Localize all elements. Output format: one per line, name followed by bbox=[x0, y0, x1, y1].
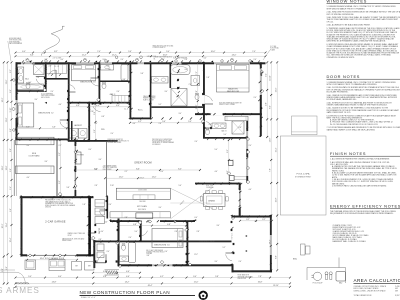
svg-text:49'-4": 49'-4" bbox=[148, 285, 153, 287]
window top wall WIC bbox=[138, 62, 145, 65]
interior dim vertical kitchen bbox=[228, 140, 230, 183]
svg-text:3'-8": 3'-8" bbox=[122, 79, 126, 81]
hall door arc bbox=[100, 211, 106, 217]
dimension chain bottom inner bbox=[16, 277, 291, 279]
svg-text:9'-0": 9'-0" bbox=[2, 268, 4, 272]
BBQ island bbox=[336, 272, 346, 282]
svg-text:BEDROOM #3: BEDROOM #3 bbox=[80, 82, 96, 84]
svg-text:13'-6": 13'-6" bbox=[270, 137, 272, 142]
svg-text:3'-0": 3'-0" bbox=[203, 58, 207, 60]
svg-text:2'-6": 2'-6" bbox=[48, 66, 52, 68]
svg-text:3'-6": 3'-6" bbox=[94, 129, 96, 133]
svg-text:POOL & SPA: POOL & SPA bbox=[297, 173, 310, 176]
svg-text:COURTYARD: COURTYARD bbox=[28, 155, 40, 158]
svg-text:OF 0.25.: OF 0.25. bbox=[327, 21, 334, 23]
master shower bbox=[171, 89, 187, 107]
svg-text:5'-0": 5'-0" bbox=[106, 66, 110, 68]
dimension chain bottom outer bbox=[16, 282, 291, 284]
svg-text:4'-0": 4'-0" bbox=[116, 105, 120, 107]
bath2 tub bbox=[18, 84, 44, 90]
svg-text:6'-8": 6'-8" bbox=[101, 116, 105, 118]
laundry walls bbox=[88, 102, 90, 140]
bath3 shower bbox=[232, 121, 244, 134]
hall dim row bbox=[68, 106, 129, 108]
pool rectangle bbox=[280, 136, 326, 215]
svg-text:8'-0": 8'-0" bbox=[88, 149, 92, 151]
svg-text:NEW CONSTRUCTION FLOOR PLAN: NEW CONSTRUCTION FLOOR PLAN bbox=[80, 290, 170, 295]
hall bath tub bbox=[121, 65, 128, 81]
entry door bbox=[96, 262, 107, 264]
bedroom2/3 divider wall bbox=[68, 62, 70, 103]
vault direction lines bbox=[170, 188, 213, 209]
svg-text:WITH DOOR MANUF. PRIOR TO FRAM: WITH DOOR MANUF. PRIOR TO FRAMING AND OR… bbox=[327, 83, 378, 86]
svg-text:AREA CALCULATIONS: AREA CALCULATIONS bbox=[354, 278, 400, 283]
svg-text:WITH HOSE CONN: WITH HOSE CONN bbox=[9, 40, 21, 42]
svg-text:36 1/2 TEMPERED: 36 1/2 TEMPERED bbox=[41, 94, 53, 96]
svg-text:1/2 IN. G.W.B. RATED FOR USE I: 1/2 IN. G.W.B. RATED FOR USE IN DAMP APP… bbox=[332, 174, 397, 177]
svg-text:COFFERED: COFFERED bbox=[206, 187, 214, 189]
office top wall bbox=[232, 216, 272, 218]
hall dim chain mid bbox=[130, 122, 203, 124]
svg-text:CL. #3: CL. #3 bbox=[54, 66, 59, 68]
svg-text:POOL EQUIP: POOL EQUIP bbox=[313, 283, 323, 285]
svg-text:2'-0": 2'-0" bbox=[106, 251, 110, 253]
door arc bedroom2 bbox=[60, 121, 68, 128]
garage top wall bbox=[21, 196, 94, 198]
bath2 lower vanity bbox=[120, 256, 129, 262]
svg-text:PREVENTER: PREVENTER bbox=[238, 278, 247, 280]
svg-text:SCALE: 1/4" = 1'-0": SCALE: 1/4" = 1'-0" bbox=[81, 296, 96, 299]
bath2 lower tub bbox=[129, 243, 136, 263]
svg-text:2'-2": 2'-2" bbox=[124, 171, 128, 173]
svg-text:TOTAL UNDER ROOF: TOTAL UNDER ROOF bbox=[354, 294, 373, 297]
svg-text:10'-6": 10'-6" bbox=[211, 51, 216, 53]
svg-text:SELECTION BY OWNER: SELECTION BY OWNER bbox=[219, 104, 235, 106]
courtyard fence left bbox=[13, 140, 15, 196]
great room interior dim row bbox=[75, 169, 200, 171]
svg-text:OBSCURE SHOWER: OBSCURE SHOWER bbox=[41, 95, 55, 97]
bath2 shower bbox=[34, 65, 45, 75]
courtyard wall stub bbox=[56, 139, 58, 197]
bedroom2 bed bbox=[18, 103, 34, 127]
great room west windows bbox=[75, 140, 77, 196]
svg-text:6'-0": 6'-0" bbox=[194, 217, 198, 219]
svg-text:3'-0" SEE: 3'-0" SEE bbox=[270, 46, 276, 48]
svg-text:2'-6": 2'-6" bbox=[194, 141, 198, 143]
svg-text:11'-2": 11'-2" bbox=[194, 254, 198, 256]
closet door arc bbox=[49, 70, 57, 75]
svg-text:5'-6": 5'-6" bbox=[52, 127, 56, 129]
svg-text:GAIN COEFFICIENT OF 0.25.: GAIN COEFFICIENT OF 0.25. bbox=[327, 111, 352, 114]
arrowhead specks at junctions bbox=[45, 102, 47, 104]
svg-text:6'-2": 6'-2" bbox=[26, 127, 30, 129]
svg-text:BEDROOM #4: BEDROOM #4 bbox=[154, 245, 170, 247]
svg-text:MASTER: MASTER bbox=[228, 87, 238, 90]
svg-text:2'-8": 2'-8" bbox=[196, 231, 200, 233]
hall bath toilet bbox=[102, 83, 106, 89]
dimension chain top inner bbox=[16, 52, 266, 54]
svg-text:2'-0": 2'-0" bbox=[253, 97, 257, 99]
svg-text:3'-0": 3'-0" bbox=[158, 207, 162, 209]
bath3 walls bbox=[203, 137, 246, 139]
master vanity left bbox=[152, 77, 169, 84]
svg-text:12'-8": 12'-8" bbox=[6, 117, 8, 122]
patio dim row bbox=[240, 220, 272, 222]
bath2 toilet bbox=[26, 83, 30, 89]
svg-text:HOSE BIBB WITH: HOSE BIBB WITH bbox=[238, 275, 249, 277]
svg-text:7'-8": 7'-8" bbox=[258, 276, 262, 278]
svg-text:24'-0": 24'-0" bbox=[232, 55, 237, 57]
svg-text:6'-4": 6'-4" bbox=[58, 276, 62, 278]
svg-text:KITCHEN: KITCHEN bbox=[137, 206, 147, 208]
dimension chain top outer bbox=[16, 55, 266, 57]
revision cloud curve bbox=[41, 26, 62, 55]
svg-text:2'-2": 2'-2" bbox=[58, 145, 62, 147]
entry hall east wall bbox=[118, 219, 120, 267]
master bath tub bbox=[171, 65, 191, 75]
svg-text:4'-0": 4'-0" bbox=[184, 69, 188, 71]
BBQ counter bbox=[301, 244, 306, 255]
svg-text:2'-6": 2'-6" bbox=[121, 59, 124, 61]
svg-text:3'-2": 3'-2" bbox=[262, 219, 266, 221]
svg-text:4'-6": 4'-6" bbox=[248, 189, 252, 191]
svg-text:9'-2": 9'-2" bbox=[146, 222, 150, 224]
svg-text:1. ALL INTERIOR FINISHES PER O: 1. ALL INTERIOR FINISHES PER OWNER/CONTR… bbox=[330, 158, 390, 161]
svg-text:1'-8": 1'-8" bbox=[206, 77, 210, 79]
svg-text:3'-4": 3'-4" bbox=[193, 276, 197, 278]
svg-text:IN. OF CEILING AND ONE WITHIN: IN. OF CEILING AND ONE WITHIN 12 IN. OF … bbox=[330, 123, 378, 126]
svg-text:D. EXTERIOR PATIO CEILING SHAL: D. EXTERIOR PATIO CEILING SHALL BE GAP E… bbox=[332, 184, 387, 187]
svg-text:31'-10": 31'-10" bbox=[273, 285, 279, 287]
garage bottom wall bbox=[21, 254, 94, 256]
svg-text:ENCLOSURE: ENCLOSURE bbox=[41, 97, 50, 99]
svg-text:15'-4": 15'-4" bbox=[276, 147, 278, 152]
svg-text:14'-2": 14'-2" bbox=[125, 282, 130, 284]
fireplace box bbox=[76, 152, 82, 164]
svg-text:6'-8": 6'-8" bbox=[133, 224, 137, 226]
master bath wall bbox=[170, 62, 172, 88]
exterior wall bottom office bbox=[232, 270, 273, 272]
svg-text:4'-6": 4'-6" bbox=[132, 123, 136, 125]
svg-text:9'-4": 9'-4" bbox=[266, 73, 268, 77]
svg-text:CL. 3: CL. 3 bbox=[124, 108, 128, 110]
svg-text:7'-0": 7'-0" bbox=[188, 84, 192, 86]
bedroom4 dim row bbox=[118, 225, 186, 227]
bath2 lower toilet bbox=[122, 245, 126, 251]
svg-text:2'-8": 2'-8" bbox=[94, 185, 98, 187]
leader arrows on walls bbox=[29, 61, 31, 63]
porch dim row bbox=[93, 272, 140, 274]
front porch steps hatch bbox=[106, 271, 108, 275]
AC pads bbox=[25, 260, 36, 270]
svg-text:6'-0" C.O.: 6'-0" C.O. bbox=[232, 232, 234, 239]
linen closet shelves bbox=[47, 65, 67, 74]
svg-text:3'-0": 3'-0" bbox=[34, 99, 38, 101]
double sink pad bbox=[49, 260, 65, 271]
svg-text:3'-8": 3'-8" bbox=[146, 255, 150, 257]
svg-text:7'-8": 7'-8" bbox=[270, 168, 272, 172]
closet shelf lines near WIC bbox=[112, 96, 129, 104]
svg-text:WITH WINDOW MANUF. PRIOR TO FR: WITH WINDOW MANUF. PRIOR TO FRAMING. bbox=[327, 7, 366, 10]
great room east wall bbox=[246, 121, 248, 183]
svg-text:2'-4": 2'-4" bbox=[50, 91, 54, 93]
exterior wall top bbox=[16, 62, 206, 64]
svg-text:5'-6": 5'-6" bbox=[178, 185, 182, 187]
garage left wall bbox=[21, 196, 23, 256]
window top wall bath 2 bbox=[21, 62, 35, 65]
bath2 south wall bbox=[16, 90, 45, 92]
hall bath wall bbox=[99, 81, 130, 83]
svg-text:9'-2": 9'-2" bbox=[59, 180, 61, 184]
svg-text:OWNER. HARDWARE AND HINGES TO: OWNER. HARDWARE AND HINGES TO MATCH THE … bbox=[327, 103, 388, 106]
svg-text:8'-6": 8'-6" bbox=[30, 55, 34, 57]
svg-text:3'-0": 3'-0" bbox=[26, 59, 29, 61]
window tag bubbles on top wall bbox=[115, 56, 118, 59]
bath2 vanity bbox=[18, 67, 24, 83]
bedroom3 bed bbox=[72, 65, 96, 81]
door jamb marks bbox=[105, 260, 107, 262]
dimension chain left inner bbox=[11, 62, 13, 256]
window top wall master bedroom bbox=[214, 62, 250, 65]
dimension line garage door bbox=[27, 259, 77, 261]
bath3 toilet bbox=[206, 129, 210, 135]
bath2 speckle ticks bbox=[23, 62, 25, 64]
svg-text:PWD.: PWD. bbox=[101, 129, 105, 131]
svg-text:5'-6": 5'-6" bbox=[162, 121, 166, 123]
svg-text:BASEMENT WALL R-VALUE: R-13 WA: BASEMENT WALL R-VALUE: R-13 WALL bbox=[333, 240, 366, 243]
svg-text:6'-8": 6'-8" bbox=[167, 224, 171, 226]
svg-text:2'-8": 2'-8" bbox=[90, 111, 94, 113]
bath2 door arc bbox=[36, 79, 45, 86]
svg-text:12'-0": 12'-0" bbox=[119, 177, 124, 179]
cased opening post upper bbox=[229, 161, 234, 166]
wh pad 2 bbox=[85, 262, 95, 271]
bedroom3 right wall bbox=[99, 62, 101, 103]
svg-text:DBL SINK: DBL SINK bbox=[139, 201, 145, 203]
svg-text:THE IRC R308. MAXIMUM U-FACTOR: THE IRC R308. MAXIMUM U-FACTOR OF 0.32 A… bbox=[327, 18, 399, 21]
driveway edge curve bbox=[0, 272, 26, 283]
svg-text:4'-0": 4'-0" bbox=[26, 177, 30, 179]
svg-text:8'-6": 8'-6" bbox=[136, 168, 140, 170]
svg-text:6'-0": 6'-0" bbox=[84, 59, 87, 61]
svg-text:2'-8": 2'-8" bbox=[254, 221, 258, 223]
svg-text:2'-8": 2'-8" bbox=[174, 231, 178, 233]
svg-text:5'-0": 5'-0" bbox=[28, 276, 32, 278]
door arc bedroom3 bbox=[91, 79, 99, 86]
master suite hall wall bbox=[203, 62, 205, 137]
laundry west wall bbox=[71, 121, 73, 140]
dimension chain right outer bbox=[276, 62, 278, 270]
dimension chain master right bbox=[266, 62, 268, 137]
svg-text:BBQ: BBQ bbox=[293, 259, 297, 261]
svg-text:4'-0": 4'-0" bbox=[208, 114, 212, 116]
dining table bbox=[204, 194, 226, 207]
svg-text:WITH TOP SHELVING: WITH TOP SHELVING bbox=[103, 167, 117, 169]
window right wall master bbox=[260, 68, 263, 95]
svg-text:7'-4": 7'-4" bbox=[97, 51, 101, 53]
svg-text:6'-0": 6'-0" bbox=[22, 51, 26, 53]
svg-text:3'-2": 3'-2" bbox=[208, 124, 212, 126]
tick speckles on interior walls bbox=[45, 69, 47, 71]
svg-text:2'-10": 2'-10" bbox=[110, 185, 114, 187]
svg-text:5'-8": 5'-8" bbox=[196, 90, 198, 94]
svg-text:3'-2": 3'-2" bbox=[246, 219, 250, 221]
exterior wall top master bedroom bbox=[203, 62, 266, 64]
master bed bbox=[217, 64, 250, 92]
bedroom4 closet bbox=[118, 221, 120, 265]
dining north wall bbox=[195, 183, 241, 185]
window top wall hall bath bbox=[99, 62, 112, 65]
svg-text:PER OWNER: PER OWNER bbox=[103, 169, 112, 171]
office right wall bbox=[270, 216, 272, 273]
svg-text:5'-2": 5'-2" bbox=[222, 247, 226, 249]
pool equipment pump symbol bbox=[313, 272, 321, 280]
svg-text:2'-6": 2'-6" bbox=[116, 91, 120, 93]
svg-text:4'-6": 4'-6" bbox=[58, 104, 62, 106]
wall speckle ticks bbox=[70, 102, 72, 104]
svg-text:7'-2": 7'-2" bbox=[196, 71, 198, 75]
svg-text:6'-0": 6'-0" bbox=[160, 171, 164, 173]
svg-text:26'-2": 26'-2" bbox=[2, 97, 4, 102]
svg-text:6'-0": 6'-0" bbox=[231, 59, 234, 61]
svg-text:10'-8": 10'-8" bbox=[276, 197, 278, 202]
window top wall master bath bbox=[172, 62, 182, 65]
courtyard planter upper bbox=[16, 137, 55, 145]
svg-text:5'-8": 5'-8" bbox=[140, 73, 144, 75]
hall bath walls bbox=[93, 241, 231, 243]
svg-text:5'-4": 5'-4" bbox=[10, 186, 12, 190]
dining right wall bbox=[239, 183, 241, 215]
svg-text:6'-8": 6'-8" bbox=[10, 148, 12, 152]
svg-text:6'-8": 6'-8" bbox=[10, 128, 12, 132]
svg-text:3'-4": 3'-4" bbox=[164, 91, 168, 93]
svg-text:11'-0": 11'-0" bbox=[194, 282, 199, 284]
svg-text:4'-0": 4'-0" bbox=[76, 105, 80, 107]
svg-text:3'-0": 3'-0" bbox=[214, 261, 218, 263]
bath3 dim ticks bbox=[207, 138, 209, 140]
svg-text:4'-6": 4'-6" bbox=[126, 271, 130, 273]
spa rectangle bbox=[292, 116, 318, 135]
svg-text:WH: WH bbox=[75, 266, 78, 268]
svg-text:5'-4": 5'-4" bbox=[166, 51, 170, 53]
svg-text:2-CAR GARAGE: 2-CAR GARAGE bbox=[45, 220, 66, 223]
svg-text:10'-8": 10'-8" bbox=[163, 55, 168, 57]
cased opening post bbox=[229, 176, 234, 181]
garage right wall fire separation bbox=[88, 196, 91, 256]
svg-text:8'-0": 8'-0" bbox=[270, 105, 272, 109]
dimension chain left outer bbox=[7, 62, 9, 283]
svg-text:1'-6": 1'-6" bbox=[230, 160, 234, 162]
svg-text:6'-8": 6'-8" bbox=[10, 168, 12, 172]
kitchen dim row bbox=[105, 177, 170, 179]
office patio step wall bbox=[232, 264, 234, 272]
svg-text:3'-6": 3'-6" bbox=[216, 225, 220, 227]
svg-text:9'-8": 9'-8" bbox=[266, 102, 268, 106]
svg-text:24'-8": 24'-8" bbox=[52, 282, 57, 284]
WIC walls bbox=[130, 62, 132, 119]
master vanity right bbox=[191, 76, 200, 86]
dim chain hall vertical bbox=[95, 104, 97, 140]
svg-text:2'-8": 2'-8" bbox=[185, 59, 188, 61]
svg-text:W.I.C.: W.I.C. bbox=[138, 110, 144, 112]
svg-text:3,267: 3,267 bbox=[395, 295, 400, 297]
svg-text:4'-0": 4'-0" bbox=[61, 59, 64, 61]
svg-text:UNENCLOSED, UNDER ROOF SPACE: UNENCLOSED, UNDER ROOF SPACE bbox=[354, 289, 387, 292]
svg-text:2'-6": 2'-6" bbox=[164, 251, 168, 253]
window office right bbox=[270, 235, 272, 255]
svg-text:4'-8": 4'-8" bbox=[103, 276, 107, 278]
svg-text:10'-0" CLG: 10'-0" CLG bbox=[206, 185, 213, 187]
svg-text:IDENTIFIED BY A PERMANENT LABE: IDENTIFIED BY A PERMANENT LABEL VISIBLE … bbox=[327, 40, 387, 43]
master window seat bbox=[225, 116, 248, 121]
svg-text:4'-2": 4'-2" bbox=[138, 121, 142, 123]
svg-text:3'-0": 3'-0" bbox=[178, 113, 182, 115]
svg-text:5'-8": 5'-8" bbox=[66, 187, 70, 189]
svg-text:18'-2": 18'-2" bbox=[270, 239, 272, 244]
svg-text:9'-2": 9'-2" bbox=[59, 152, 61, 156]
svg-text:3'-0": 3'-0" bbox=[94, 123, 98, 125]
svg-text:4'-0": 4'-0" bbox=[109, 94, 113, 96]
master hall dim chain bbox=[197, 62, 199, 113]
svg-text:BEDROOM #2: BEDROOM #2 bbox=[38, 112, 54, 114]
svg-text:4'-6": 4'-6" bbox=[214, 171, 218, 173]
door arc bath3 bbox=[206, 122, 211, 127]
svg-text:6'-6": 6'-6" bbox=[10, 89, 12, 93]
svg-text:CEILING: CEILING bbox=[45, 207, 52, 209]
svg-text:4'-0": 4'-0" bbox=[100, 231, 104, 233]
svg-text:3'-6": 3'-6" bbox=[98, 159, 102, 161]
gas meter symbols bbox=[325, 272, 328, 275]
svg-text:20'-2": 20'-2" bbox=[2, 223, 4, 228]
svg-text:19'-4": 19'-4" bbox=[6, 222, 8, 227]
svg-text:4'-6": 4'-6" bbox=[126, 276, 130, 278]
svg-text:3'-6": 3'-6" bbox=[248, 114, 252, 116]
svg-text:2'-0": 2'-0" bbox=[136, 59, 139, 61]
svg-text:3'-0": 3'-0" bbox=[104, 222, 108, 224]
svg-text:CONNECT PROVIDE ROD &: CONNECT PROVIDE ROD & bbox=[146, 252, 164, 254]
svg-text:FINISH NOTES: FINISH NOTES bbox=[330, 151, 366, 156]
svg-text:2'-8": 2'-8" bbox=[98, 239, 102, 241]
svg-text:10'-10": 10'-10" bbox=[270, 75, 272, 81]
bedroom3 closet wall bbox=[45, 78, 68, 80]
svg-text:5'-2": 5'-2" bbox=[158, 104, 162, 106]
exterior wall left upper bbox=[16, 62, 18, 140]
svg-text:5'-10": 5'-10" bbox=[10, 107, 12, 112]
svg-text:ENERGY EFFICIENCY NOTES: ENERGY EFFICIENCY NOTES bbox=[330, 203, 400, 208]
svg-text:2'-0": 2'-0" bbox=[110, 133, 114, 135]
svg-text:WINDOW NOTES: WINDOW NOTES bbox=[327, 0, 368, 4]
svg-text:2'-8": 2'-8" bbox=[158, 123, 162, 125]
svg-text:5'-6": 5'-6" bbox=[128, 51, 132, 53]
svg-text:5'-0": 5'-0" bbox=[188, 121, 192, 123]
entry hall west wall bbox=[93, 240, 95, 268]
svg-text:9'-8": 9'-8" bbox=[10, 208, 12, 212]
kitchen island bbox=[116, 188, 170, 199]
pantry shelf boxes bbox=[95, 200, 105, 207]
svg-text:8'-2": 8'-2" bbox=[54, 51, 58, 53]
sidewalk hatch bbox=[16, 282, 18, 284]
svg-text:36 SITDOWN: 36 SITDOWN bbox=[138, 190, 147, 192]
svg-text:2'-6": 2'-6" bbox=[254, 59, 257, 61]
bedroom2 east wall bbox=[68, 102, 70, 140]
svg-text:GASKET AND SWEEP. DOOR SHALL B: GASKET AND SWEEP. DOOR SHALL BE SELF-LAT… bbox=[327, 128, 376, 131]
svg-text:5'-8": 5'-8" bbox=[215, 276, 219, 278]
window tag markers bbox=[26, 58, 30, 62]
svg-text:KEY OR SPECIAL KNOWLEDGE.: KEY OR SPECIAL KNOWLEDGE. bbox=[327, 13, 355, 16]
svg-text:12'-2": 12'-2" bbox=[112, 55, 117, 57]
svg-text:8'-0": 8'-0" bbox=[178, 168, 182, 170]
svg-text:BOLTS ARE PROHIBITED.: BOLTS ARE PROHIBITED. bbox=[327, 91, 349, 94]
